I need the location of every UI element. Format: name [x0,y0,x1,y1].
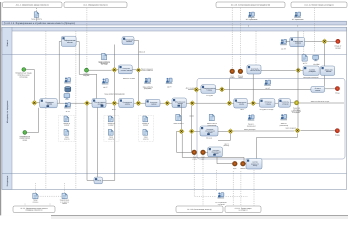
svg-text:Срок: Срок [231,75,235,77]
wire w-loop [257,134,298,159]
svg-text:возврат: возврат [64,125,70,127]
event R1 [335,87,339,91]
wire w-GmA-loop [182,134,246,164]
wire w-Tg-Th [275,102,278,104]
event E2 [85,68,89,72]
event O4 [241,161,246,166]
task To2 [247,65,261,74]
wire mf-v1 [45,31,47,189]
label [246,18,258,21]
group box [197,79,345,160]
task T1 [61,36,76,46]
task Td [146,99,161,107]
svg-text:заказа: заказа [22,140,27,142]
collapsed pool P6 [176,206,223,213]
wire w-Gr-R1t [327,40,336,42]
label [233,168,237,170]
wire w-T1-right [76,42,97,99]
pool title bar [2,21,347,25]
wire mf-v2 [75,31,77,189]
event O2 [201,150,206,155]
resource icon Rtop2 [294,12,301,18]
label [64,137,70,141]
wire w-Gg-up [252,74,254,101]
wire w-Ti-R1 [325,88,336,90]
wire mf-top2b [247,21,249,27]
svg-text:ƒx А1.1.3. Формирование и отр: ƒx А1.1.3. Формирование и отработка зака… [4,22,75,25]
label [33,199,39,204]
wire w-Ga-down [87,106,94,181]
lane divider 2 [2,172,347,174]
wire mf-b4 [194,155,216,197]
wire w-Gf-up [228,79,230,101]
document D116a [64,116,69,122]
resource icon RtsA [280,39,287,45]
label [99,60,111,65]
svg-text:Отмена: Отмена [238,75,243,77]
wire w-Gq-vert [297,31,299,128]
resource icon R102 [64,103,71,109]
svg-text:получена, заказ: получена, заказ [18,74,30,76]
svg-text:товара: товара [265,103,270,105]
wire w-E2-G2 [89,69,112,71]
svg-text:Кладовщик: Кладовщик [6,176,9,187]
gateway G1 [32,100,37,105]
sub-icon in Tn [213,154,216,156]
svg-text:к отгрузке: к отгрузке [206,95,213,97]
wire w-Gr-down [324,44,326,87]
svg-text:клиента: клиента [64,138,70,140]
label [313,63,320,66]
wire w-GwR-R2 [301,130,336,132]
label [103,86,107,89]
task Ts [290,37,305,46]
label [335,92,340,95]
task Th [278,99,290,108]
wire w-O1-in [177,131,192,152]
wire w-Gh-Tj [199,89,201,91]
svg-text:заказа: заказа [295,42,302,45]
document D130b [108,129,113,135]
wire w-Gq-Tq [301,69,303,71]
svg-text:заказа: заказа [239,104,244,106]
gateway G2 [112,67,117,72]
label [201,156,206,161]
document D116c [143,116,148,122]
task Tg [259,99,275,108]
wire mf-b2 [64,183,66,193]
svg-text:Отмена: Отмена [240,168,245,170]
resource icon Rtop1 [248,12,255,18]
wire mf-b7 [232,171,234,206]
svg-text:А1.1.11. Прием товара на склад: А1.1.11. Прием товара на склад (с) [304,3,334,6]
lane header column [2,27,12,189]
wire w-Ts-in [286,40,290,42]
svg-text:Заказ: Заказ [65,137,69,139]
wire w-GmB-up [191,106,193,129]
wire w-To2-Gq [261,69,295,71]
wire w-Gd-Te [170,102,172,104]
wire w-Tc-Gc [134,102,136,104]
svg-text:возврат: возврат [143,125,149,127]
task Tn [208,147,223,157]
task Tm [200,126,218,136]
resource icon R77b [102,79,109,85]
dotted group box [59,116,75,142]
label [293,107,301,112]
wire w-Ts-Gr [305,40,322,42]
label [139,51,146,54]
label [260,108,274,111]
document D53 [102,53,107,59]
svg-text:А1.2. Обращение клиента (с): А1.2. Обращение клиента (с) [83,3,108,6]
svg-text:Менеджер по продажам: Менеджер по продажам [6,100,9,123]
wire mf-b1 [34,183,36,193]
svg-text:Заявка на: Заявка на [142,123,149,125]
svg-text:согласован: согласован [19,76,27,78]
database icon Cyl [65,86,71,92]
event O3 [233,161,238,166]
wire w-T5-Ga [57,102,84,104]
gateway GwR [295,128,300,133]
label [240,108,244,111]
event R1t [336,39,340,43]
task T5 [40,99,58,108]
wire mf-top1b [36,17,38,21]
svg-text:Заявка на: Заявка на [108,123,115,125]
collapsed pool P5 [13,206,55,213]
label [230,75,235,79]
svg-text:клиента: клиента [143,138,149,140]
svg-text:корректировке: корректировке [20,138,31,140]
label [224,143,230,147]
collapsed pool P7 [225,206,261,213]
svg-text:отгрузке: отгрузке [83,75,89,77]
resource icon R114e [248,115,255,121]
wire mf-v4 [231,8,233,69]
gateway Gh [194,87,199,92]
document D116b [108,116,113,122]
svg-text:1С УТ: 1С УТ [281,48,286,51]
wire w-T1-left [59,42,61,104]
svg-text:истекло заказ не: истекло заказ не [141,70,153,72]
collapsed pool P4 [291,2,347,8]
wire mf-top1 [36,8,38,12]
document D130a [64,129,69,135]
label [15,72,31,79]
task Ti [311,87,325,93]
resource icon R77a [64,78,71,84]
dotted group box [139,116,154,142]
task T3 [118,65,132,74]
svg-text:А1.1.2. Оформление заказа клие: А1.1.2. Оформление заказа клиента (с) [16,3,49,6]
gateway Gf [227,101,232,106]
svg-text:раза в д.: раза в д. [224,145,230,147]
wire mf-top3 [297,21,299,27]
gateway Gq [296,68,301,73]
document D114c [176,114,181,120]
wire w-G2-T3 [117,69,118,71]
svg-text:клиента: клиента [108,138,114,140]
resource icon R114f [280,114,287,120]
wire mf-b6 [216,170,218,192]
wire w-Gf-Tf [232,102,234,104]
bottom frame line [51,214,348,216]
gateway Gr [322,39,327,44]
wire w-Ga-Tb [90,102,92,104]
document Dbot1 [33,193,38,199]
sub-icon in Te [178,105,181,107]
wire w-Gi-Ti [225,88,311,90]
wire w-GmB-Tm [194,130,200,132]
label [98,60,110,65]
label [143,137,149,141]
label [143,85,153,90]
resource icon R77d [166,78,173,84]
sub-icon in Tm [207,133,210,135]
svg-text:о готовности: о готовности [60,201,69,203]
wire w-Gb-down [103,106,115,181]
svg-text:Срок: Срок [233,168,237,170]
label [335,134,340,137]
collapsed pool P1 [3,2,63,8]
label [63,123,70,127]
label [20,135,31,142]
wire mf-c1 [24,204,26,207]
document D130c [143,129,148,135]
wire w-Gb-Tc [117,102,119,104]
resource icon R77c [144,78,151,84]
svg-text:клиента: клиента [33,201,39,203]
wire w-GmA-up [181,103,183,128]
wire w-Gg-Tg [256,102,260,104]
wire mf-b10 [253,170,255,206]
svg-text:ЗК1.1-В: ЗК1.1-В [139,51,146,54]
event O2t [238,69,243,74]
svg-text:заказа: заказа [335,47,340,49]
sub-icon in Tb [101,105,104,107]
label [247,123,256,128]
thin collapsed lane [2,27,347,31]
label [280,122,289,127]
label [108,137,114,141]
svg-text:заказа: заказа [67,41,74,44]
label [31,17,42,20]
svg-text:товара: товара [207,90,212,92]
wire w-Th-Ye [290,102,294,104]
label [60,199,70,206]
bottom window area [0,215,348,219]
line hop tick [189,115,193,117]
wire w-Gh-in [188,89,194,91]
wire w-Tj-Gi [216,88,220,90]
wire w-Tm-Gn [218,130,228,132]
event E1 [22,68,26,72]
label [303,76,318,79]
wire mf-v7 [303,31,305,54]
wire w-Tf-Gg [247,102,250,104]
svg-text:Клиент: Клиент [6,40,9,47]
wire w-G1-T5 [37,102,40,104]
wire w-E1 [26,70,35,101]
svg-text:заказа: заказа [62,203,67,205]
document D53r [302,55,307,61]
wire mf-top2 [251,18,253,20]
wire mf-v5 [239,8,241,69]
label [303,62,308,65]
svg-text:Заказ на товар: Заказ на товар [291,111,301,113]
gateway GmB [189,129,194,134]
gateway Gc [136,101,141,106]
svg-text:Заказ: Заказ [109,137,113,139]
task Tj [201,85,216,94]
collapsed pool P3 [216,2,285,8]
task Tc [119,99,134,108]
label [112,108,116,111]
label [186,86,196,89]
task To [246,159,262,170]
label [83,72,89,77]
wire w-Tn-O3 [217,157,232,164]
task Tv [94,177,103,184]
task Tb [92,99,106,108]
wire mf-b5 [202,155,204,206]
gateway Gi [219,87,224,92]
svg-text:оплаты: оплаты [230,77,235,79]
wire w-Gn-down [218,134,231,140]
svg-text:заказа: заказа [151,104,156,106]
label [192,157,197,161]
lane divider 1 [2,54,347,56]
svg-text:Заявка на: Заявка на [63,123,70,125]
svg-text:оплаты заказа: оплаты заказа [121,70,132,72]
label [335,44,342,49]
task Tf [234,99,247,109]
wire w-Gc-Td [141,102,146,104]
label [238,75,243,79]
document Dbot2 [62,193,67,199]
gateway Gb [112,101,117,106]
svg-text:заказу: заказу [253,165,258,167]
label [167,85,171,88]
label [286,128,297,130]
label [206,95,213,97]
wire w-Gn-GwR [233,130,294,132]
svg-text:оплаты: оплаты [192,158,197,160]
gateway Gg [251,101,256,106]
label [240,168,245,170]
wire w-T2-down [113,45,115,101]
svg-text:Цикл 2: Цикл 2 [224,143,229,145]
label [174,122,184,125]
wire w-E3 [27,108,39,133]
resource icon Rbot [218,193,225,199]
sub-icon in T5 [47,105,50,107]
label [66,110,70,113]
wire mf-v8 [314,8,316,52]
system icon M93 [64,94,70,100]
svg-text:на товар: на товар [101,63,108,65]
label [265,87,269,90]
label [292,18,304,21]
dotted group box [104,116,119,142]
wire w-T3-G3 [132,69,136,71]
svg-text:Цикл ожидания: Цикл ожидания [286,128,297,130]
wire w-Tb-down [97,108,99,178]
wire mf-b9 [226,196,248,198]
svg-text:обеспечения: обеспечения [250,69,260,72]
wire w-Tb-Gb [106,102,112,104]
svg-text:отгрузки: отгрузки [282,103,289,105]
event E3 [23,131,27,135]
gateway Gn [228,129,233,134]
svg-text:заказа: заказа [326,71,331,73]
svg-text:заказе: заказе [315,90,320,92]
wire w-T2-right [134,41,139,101]
label [244,128,256,131]
svg-text:заказа: заказа [125,103,130,105]
svg-text:заказа: заказа [238,77,243,79]
svg-text:в ожидании: в ожидании [292,112,300,114]
label [123,77,135,80]
task Tq [303,66,319,75]
gateway Gd [165,101,170,106]
wire mf-c2 [49,204,51,207]
label [0,0,1,1]
event Ye [295,101,299,105]
label [142,123,149,127]
gateway Ge [190,101,195,106]
gateway G3 [136,68,141,73]
label [291,111,301,115]
gateway GmA [179,129,184,134]
label [216,201,227,206]
wire w-Td-Gd [160,102,165,104]
label [141,67,153,72]
gateway Ga [84,101,89,106]
wire mf-b8 [240,171,242,206]
system icon M53r [313,55,319,61]
svg-text:Срок: Срок [193,157,197,159]
wire mf-v6 [255,31,257,65]
svg-text:резерва: резерва [309,71,316,73]
event R2 [335,129,339,133]
svg-text:Заказ: Заказ [144,137,148,139]
event O1t [230,69,235,74]
event O1 [192,150,197,155]
task Tr [321,66,335,75]
label [207,122,217,127]
label [311,100,330,103]
collapsed pool P2 [64,2,127,8]
wire w-Ye-long [299,102,344,104]
svg-text:заказа: заказа [126,41,131,43]
wire w-Te-Ge [186,102,189,104]
resource icon R77e [264,80,271,86]
wire w-Ge-Gf [195,102,227,104]
task T2 [122,37,134,45]
svg-text:возврат: возврат [108,125,114,127]
wire mf-v3 [86,8,88,68]
label [108,123,115,127]
document D114d [209,114,214,120]
label [206,137,212,140]
wire w-GmB-down [190,134,192,152]
task Te [172,98,186,108]
label [281,48,286,51]
svg-text:А1.1.10. Согласование заказа п: А1.1.10. Согласование заказа поставщиком… [231,3,271,6]
pool body [2,27,347,189]
